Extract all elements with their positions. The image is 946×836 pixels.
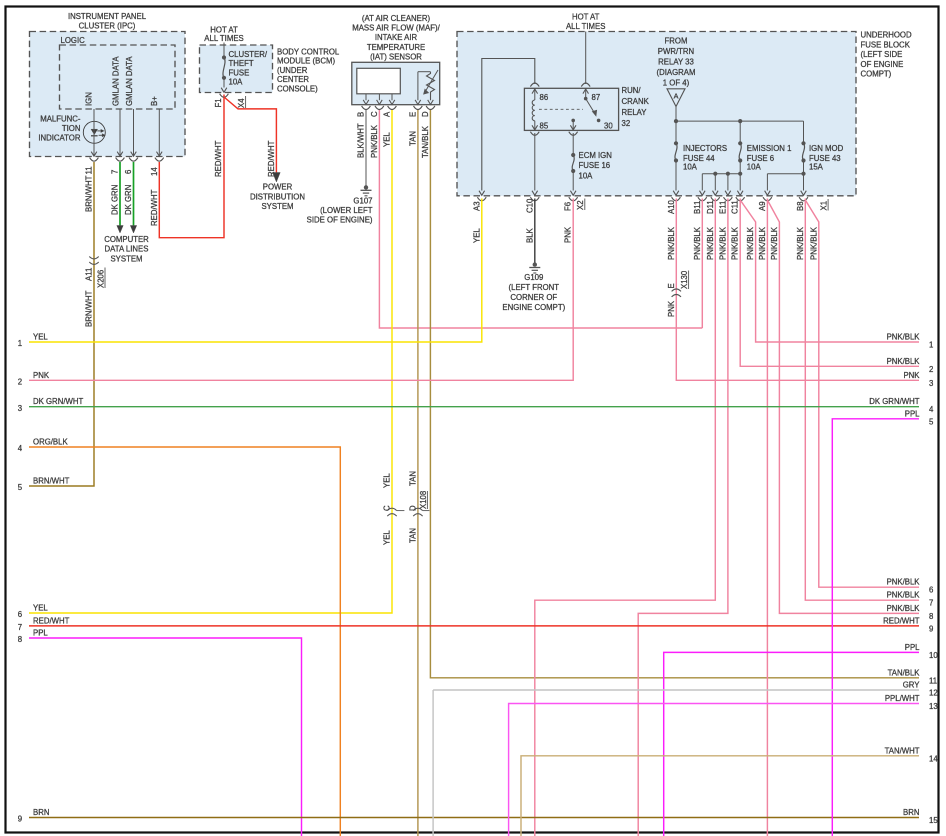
svg-text:TAN: TAN [408, 131, 417, 146]
svg-text:PNK: PNK [33, 371, 50, 380]
svg-text:PNK/BLK: PNK/BLK [770, 226, 779, 260]
svg-text:10: 10 [929, 651, 938, 660]
svg-text:E: E [408, 112, 417, 117]
svg-text:PNK/BLK: PNK/BLK [667, 226, 676, 260]
svg-text:(DIAGRAM: (DIAGRAM [657, 68, 696, 77]
svg-text:C: C [370, 111, 379, 117]
svg-text:DK GRN: DK GRN [124, 185, 133, 215]
svg-text:13: 13 [929, 702, 938, 711]
svg-text:ALL TIMES: ALL TIMES [566, 22, 605, 31]
svg-text:MALFUNC-: MALFUNC- [40, 115, 81, 124]
svg-text:8: 8 [18, 635, 22, 644]
svg-text:THEFT: THEFT [229, 59, 254, 68]
svg-text:CLUSTER (IPC): CLUSTER (IPC) [79, 22, 136, 31]
svg-text:1: 1 [18, 339, 22, 348]
svg-text:COMPT): COMPT) [861, 70, 892, 79]
svg-text:CLUSTER/: CLUSTER/ [229, 50, 268, 59]
svg-text:PNK/BLK: PNK/BLK [887, 604, 921, 613]
svg-text:PNK/BLK: PNK/BLK [809, 226, 818, 260]
svg-text:D11: D11 [706, 200, 715, 214]
svg-text:TAN: TAN [408, 471, 417, 486]
svg-text:F1: F1 [214, 98, 223, 107]
svg-text:YEL: YEL [472, 228, 481, 243]
svg-text:86: 86 [540, 93, 549, 102]
svg-text:RUN/: RUN/ [622, 86, 642, 95]
svg-text:2: 2 [929, 365, 933, 374]
svg-text:(UNDER: (UNDER [277, 66, 308, 75]
svg-text:BRN/WHT: BRN/WHT [85, 175, 94, 212]
svg-text:5: 5 [18, 483, 23, 492]
svg-text:DISTRIBUTION: DISTRIBUTION [250, 192, 305, 201]
svg-text:COMPUTER: COMPUTER [104, 235, 149, 244]
svg-text:BRN/WHT: BRN/WHT [33, 477, 70, 486]
svg-text:PPL: PPL [905, 409, 920, 418]
svg-text:CORNER OF: CORNER OF [510, 293, 557, 302]
svg-text:A: A [383, 111, 392, 117]
svg-text:10A: 10A [747, 163, 762, 172]
svg-text:RED/WHT: RED/WHT [33, 616, 70, 625]
svg-text:INDICATOR: INDICATOR [38, 134, 81, 143]
svg-text:TION: TION [62, 124, 81, 133]
svg-text:PNK: PNK [564, 226, 573, 243]
svg-text:C11: C11 [731, 200, 740, 214]
svg-text:C: C [383, 505, 392, 511]
svg-text:POWER: POWER [263, 183, 293, 192]
svg-text:11: 11 [85, 166, 94, 174]
svg-text:YEL: YEL [33, 333, 48, 342]
svg-text:YEL: YEL [33, 604, 48, 613]
svg-text:PNK/BLK: PNK/BLK [706, 226, 715, 260]
svg-text:X2: X2 [576, 200, 585, 210]
svg-text:1: 1 [929, 341, 933, 350]
svg-text:3: 3 [18, 404, 22, 413]
svg-text:87: 87 [592, 93, 601, 102]
svg-text:X206: X206 [96, 270, 105, 288]
svg-text:B: B [357, 112, 366, 117]
svg-text:85: 85 [540, 122, 549, 131]
svg-text:1 OF 4): 1 OF 4) [663, 79, 690, 88]
svg-text:D: D [408, 505, 417, 511]
svg-text:B+: B+ [150, 96, 159, 106]
svg-text:9: 9 [18, 815, 22, 824]
svg-text:11: 11 [929, 676, 937, 685]
svg-text:TAN: TAN [408, 528, 417, 543]
svg-text:(LEFT SIDE: (LEFT SIDE [861, 50, 903, 59]
svg-text:CENTER: CENTER [277, 75, 309, 84]
svg-text:PPL/WHT: PPL/WHT [885, 694, 920, 703]
svg-text:RED/WHT: RED/WHT [883, 616, 920, 625]
svg-text:6: 6 [929, 586, 933, 595]
svg-text:PNK/BLK: PNK/BLK [370, 124, 379, 158]
svg-text:INSTRUMENT PANEL: INSTRUMENT PANEL [68, 12, 147, 21]
svg-text:PPL: PPL [905, 643, 920, 652]
svg-text:G109: G109 [524, 273, 543, 282]
svg-text:14: 14 [150, 167, 159, 176]
svg-text:14: 14 [929, 754, 938, 763]
svg-text:PWR/TRN: PWR/TRN [658, 47, 694, 56]
svg-text:DATA LINES: DATA LINES [105, 245, 149, 254]
svg-text:6: 6 [18, 610, 22, 619]
svg-text:YEL: YEL [383, 473, 392, 488]
svg-text:YEL: YEL [383, 132, 392, 147]
svg-text:PNK/BLK: PNK/BLK [746, 226, 755, 260]
svg-text:7: 7 [18, 623, 22, 632]
svg-text:15A: 15A [809, 163, 824, 172]
svg-text:CONSOLE): CONSOLE) [277, 84, 318, 93]
svg-text:ENGINE COMPT): ENGINE COMPT) [502, 303, 565, 312]
svg-text:PNK/BLK: PNK/BLK [887, 578, 921, 587]
svg-text:ECM IGN: ECM IGN [579, 151, 612, 160]
svg-text:D: D [421, 111, 430, 117]
svg-text:(LOWER LEFT: (LOWER LEFT [320, 206, 373, 215]
svg-text:FROM: FROM [665, 36, 688, 45]
svg-text:A3: A3 [472, 201, 481, 211]
svg-text:LOGIC: LOGIC [61, 36, 86, 45]
svg-text:EMISSION 1: EMISSION 1 [747, 144, 792, 153]
svg-text:PNK/BLK: PNK/BLK [693, 226, 702, 260]
svg-text:FUSE: FUSE [229, 68, 250, 77]
svg-text:6: 6 [124, 170, 133, 174]
svg-text:BLK/WHT: BLK/WHT [357, 123, 366, 158]
svg-text:10A: 10A [683, 163, 698, 172]
svg-text:7: 7 [929, 599, 933, 608]
svg-text:SYSTEM: SYSTEM [110, 254, 142, 263]
svg-text:BRN: BRN [903, 808, 919, 817]
svg-text:X1: X1 [820, 201, 829, 211]
svg-text:PNK/BLK: PNK/BLK [758, 226, 767, 260]
svg-text:BRN: BRN [33, 808, 49, 817]
svg-text:PNK: PNK [667, 300, 676, 317]
svg-text:(LEFT FRONT: (LEFT FRONT [509, 283, 560, 292]
svg-text:MASS AIR FLOW (MAF)/: MASS AIR FLOW (MAF)/ [352, 24, 440, 33]
svg-text:TEMPERATURE: TEMPERATURE [367, 43, 425, 52]
svg-text:PNK: PNK [903, 371, 920, 380]
svg-text:BODY CONTROL: BODY CONTROL [277, 48, 340, 57]
svg-text:C10: C10 [525, 198, 534, 213]
svg-text:UNDERHOOD: UNDERHOOD [861, 31, 912, 40]
svg-text:15: 15 [929, 816, 938, 825]
svg-text:2: 2 [18, 378, 22, 387]
svg-text:12: 12 [929, 689, 938, 698]
svg-text:PNK/BLK: PNK/BLK [887, 591, 921, 600]
svg-text:8: 8 [929, 612, 933, 621]
svg-text:B8: B8 [796, 201, 805, 211]
svg-text:B11: B11 [693, 201, 702, 214]
svg-text:X4: X4 [237, 98, 246, 108]
svg-text:RELAY 33: RELAY 33 [658, 58, 694, 67]
svg-text:FUSE 16: FUSE 16 [579, 161, 611, 170]
svg-text:9: 9 [929, 624, 933, 633]
svg-text:A: A [674, 92, 679, 101]
svg-text:RED/WHT: RED/WHT [214, 140, 223, 177]
svg-text:10A: 10A [579, 171, 594, 180]
svg-text:30: 30 [604, 122, 613, 131]
svg-text:SYSTEM: SYSTEM [261, 202, 293, 211]
svg-text:E: E [667, 283, 676, 288]
svg-text:TAN/BLK: TAN/BLK [421, 125, 430, 158]
svg-text:3: 3 [929, 379, 933, 388]
svg-text:A10: A10 [667, 199, 676, 214]
svg-text:HOT AT: HOT AT [210, 26, 238, 35]
svg-text:PNK/BLK: PNK/BLK [796, 226, 805, 260]
svg-text:FUSE BLOCK: FUSE BLOCK [861, 40, 911, 49]
svg-text:HOT AT: HOT AT [572, 13, 600, 22]
svg-text:INTAKE AIR: INTAKE AIR [375, 33, 418, 42]
svg-text:ALL TIMES: ALL TIMES [204, 34, 243, 43]
svg-text:GMLAN DATA: GMLAN DATA [125, 56, 134, 106]
svg-text:PNK/BLK: PNK/BLK [731, 226, 740, 260]
svg-text:SIDE OF ENGINE): SIDE OF ENGINE) [307, 216, 373, 225]
svg-text:GRY: GRY [903, 681, 921, 690]
svg-text:5: 5 [929, 417, 934, 426]
svg-text:7: 7 [111, 170, 120, 174]
svg-text:INJECTORS: INJECTORS [683, 144, 727, 153]
svg-text:DK GRN: DK GRN [111, 185, 120, 215]
svg-text:PPL: PPL [33, 629, 48, 638]
svg-text:RED/WHT: RED/WHT [267, 140, 276, 177]
svg-text:4: 4 [18, 444, 23, 453]
svg-text:32: 32 [622, 119, 631, 128]
svg-text:10A: 10A [229, 78, 244, 87]
svg-text:4: 4 [929, 405, 934, 414]
svg-text:X108: X108 [419, 491, 428, 509]
svg-text:(IAT) SENSOR: (IAT) SENSOR [370, 53, 422, 62]
svg-text:MODULE (BCM): MODULE (BCM) [277, 57, 335, 66]
svg-text:TAN/BLK: TAN/BLK [888, 668, 921, 677]
svg-text:PNK/BLK: PNK/BLK [887, 357, 921, 366]
svg-text:X130: X130 [680, 270, 689, 289]
svg-text:E11: E11 [718, 201, 727, 214]
svg-text:PNK/BLK: PNK/BLK [887, 333, 921, 342]
svg-text:F6: F6 [564, 202, 573, 211]
svg-text:RED/WHT: RED/WHT [150, 189, 159, 226]
svg-text:YEL: YEL [383, 530, 392, 545]
svg-text:IGN: IGN [85, 92, 94, 106]
svg-text:(AT AIR CLEANER): (AT AIR CLEANER) [362, 14, 431, 23]
svg-text:RELAY: RELAY [622, 108, 648, 117]
svg-text:TAN/WHT: TAN/WHT [885, 746, 920, 755]
svg-text:ORG/BLK: ORG/BLK [33, 438, 68, 447]
svg-text:A11: A11 [85, 268, 94, 281]
svg-text:BLK: BLK [525, 227, 534, 243]
svg-text:DK GRN/WHT: DK GRN/WHT [869, 397, 919, 406]
svg-text:GMLAN DATA: GMLAN DATA [111, 56, 120, 106]
svg-text:CRANK: CRANK [622, 97, 650, 106]
svg-text:BRN/WHT: BRN/WHT [85, 290, 94, 327]
svg-text:IGN MOD: IGN MOD [809, 144, 844, 153]
svg-text:OF ENGINE: OF ENGINE [861, 60, 904, 69]
svg-text:G107: G107 [353, 197, 372, 206]
svg-text:A9: A9 [758, 201, 767, 211]
svg-text:DK GRN/WHT: DK GRN/WHT [33, 397, 83, 406]
svg-text:PNK/BLK: PNK/BLK [718, 226, 727, 260]
